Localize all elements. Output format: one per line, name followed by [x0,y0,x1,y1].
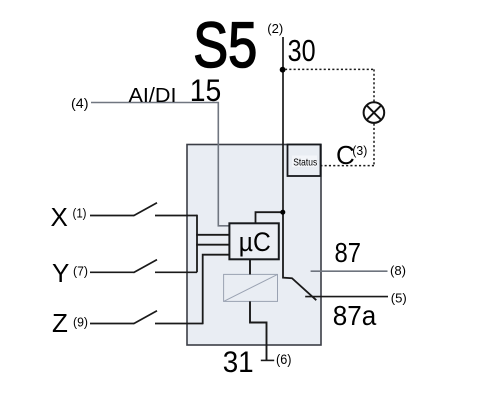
svg-text:X: X [51,202,68,232]
svg-text:30: 30 [288,34,316,68]
svg-text:Status: Status [293,156,317,168]
svg-text:(1): (1) [73,205,87,220]
svg-text:(6): (6) [276,352,292,367]
svg-text:15: 15 [190,72,222,108]
svg-text:87a: 87a [333,300,377,331]
svg-text:(9): (9) [73,314,88,329]
svg-text:Z: Z [52,308,68,338]
svg-text:(4): (4) [71,95,89,111]
svg-text:(2): (2) [267,22,283,36]
svg-text:(5): (5) [391,291,407,306]
svg-text:(7): (7) [73,263,88,278]
svg-text:S5: S5 [193,9,257,81]
svg-text:(3): (3) [352,143,367,158]
svg-text:Y: Y [52,258,69,288]
svg-text:µC: µC [239,227,271,257]
svg-text:(8): (8) [390,263,406,278]
svg-text:87: 87 [335,237,362,268]
svg-text:31: 31 [223,346,254,379]
svg-text:AI/DI: AI/DI [129,84,177,107]
